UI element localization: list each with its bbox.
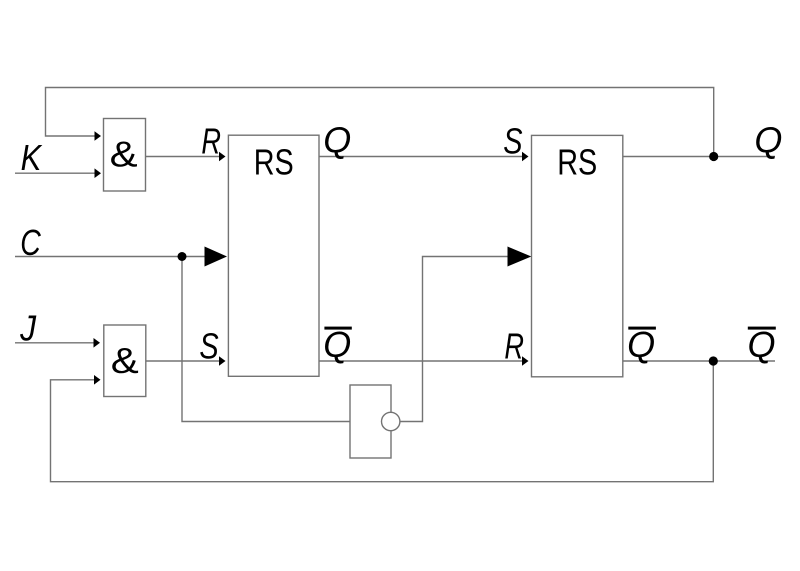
svg-text:RS: RS xyxy=(557,142,597,183)
svg-text:Q: Q xyxy=(627,324,655,365)
wire inverter output to clock of RS2 xyxy=(400,257,508,422)
inverter box xyxy=(350,385,391,458)
wire AND2 output to S of RS1 xyxy=(146,360,220,362)
svg-text:C: C xyxy=(20,222,41,263)
wire top feedback Q to AND1 xyxy=(46,88,714,157)
pin label Qbar of RS2 xyxy=(627,324,656,365)
arrowhead AND2 output into S of RS1 xyxy=(219,356,226,366)
wire Q output of RS2 xyxy=(623,156,775,158)
arrowhead feedback into AND1 xyxy=(95,131,102,141)
svg-text:Q: Q xyxy=(754,120,782,161)
svg-text:Q: Q xyxy=(323,324,351,365)
svg-text:RS: RS xyxy=(254,142,294,183)
arrowhead AND1 output into R of RS1 xyxy=(219,152,226,162)
arrowhead J into AND2 xyxy=(94,338,101,348)
svg-text:J: J xyxy=(19,308,37,349)
arrowhead K into AND1 xyxy=(95,168,102,178)
RS flip-flop box RS2 xyxy=(532,135,623,376)
arrowhead Qbar of RS1 into R of RS2 xyxy=(522,356,529,366)
wire Q of RS1 to S of RS2 xyxy=(319,156,523,158)
svg-text:K: K xyxy=(21,137,43,178)
pin label Qbar of RS1 xyxy=(323,324,352,365)
svg-text:R: R xyxy=(201,121,221,162)
wire AND1 output to R of RS1 xyxy=(146,156,221,158)
svg-text:S: S xyxy=(199,325,218,366)
svg-text:Q: Q xyxy=(748,324,776,365)
wire Qbar output of RS2 xyxy=(623,360,775,362)
svg-text:R: R xyxy=(504,325,524,366)
inverter bubble xyxy=(382,412,400,430)
clock edge triangle RS1 xyxy=(205,247,228,267)
wire Qbar of RS1 to R of RS2 xyxy=(319,360,523,362)
and-gate box AND2 xyxy=(104,325,146,397)
wire K input xyxy=(15,172,95,174)
and-gate box AND1 xyxy=(104,119,146,192)
wire C branch down to inverter xyxy=(182,257,350,422)
svg-text:Q: Q xyxy=(323,120,351,161)
wire C input xyxy=(15,256,205,258)
wire J input xyxy=(15,342,94,344)
junction dot node C xyxy=(178,252,187,261)
arrowhead feedback into AND2 xyxy=(94,375,101,385)
svg-text:&: & xyxy=(110,134,138,175)
arrowhead Q of RS1 into S of RS2 xyxy=(522,152,529,162)
svg-text:S: S xyxy=(503,121,522,162)
clock edge triangle RS2 xyxy=(508,247,532,267)
wire bottom feedback Qbar to AND2 xyxy=(51,361,714,482)
RS flip-flop box RS1 xyxy=(228,135,319,376)
junction dot node Q xyxy=(709,152,718,161)
svg-text:&: & xyxy=(111,340,139,381)
junction dot node Qbar xyxy=(709,356,718,365)
label Qbar output node xyxy=(748,324,776,365)
